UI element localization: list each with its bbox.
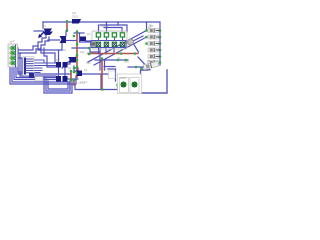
node bus 3: [159, 42, 162, 45]
node bus 2: [159, 36, 162, 39]
small part on wire left: [35, 77, 43, 82]
node bus 4: [159, 49, 162, 52]
connector pin star 2: [11, 51, 16, 55]
svg-text:D3: D3: [56, 72, 60, 76]
node red stub top: [73, 79, 76, 82]
wire Q2 left feed: [48, 39, 60, 41]
svg-text:C1 16: C1 16: [78, 81, 85, 85]
keypad pads top row: [96, 33, 124, 37]
node bottom of top red rail: [66, 29, 69, 32]
transistor Q2: [60, 36, 67, 43]
wire Q4 collector to right: [82, 73, 108, 75]
wire connector bottom pin 5: [18, 67, 70, 74]
transistor Q4: [76, 71, 82, 77]
node relay run: [135, 66, 138, 69]
wire nested top into pads: [100, 25, 127, 32]
wire DS1 out to Q3: [68, 58, 71, 64]
node mid y59 b: [125, 59, 128, 62]
svg-text:R1: R1: [63, 48, 67, 52]
node diode left 1: [145, 29, 148, 32]
node red rail a: [76, 43, 79, 46]
wire diagonal diode3 short: [132, 36, 143, 52]
red segment DS2 right: [71, 71, 74, 85]
transistor Q1 emitter arrow: [40, 32, 45, 37]
svg-text:D1: D1: [87, 32, 91, 36]
svg-text:Q1: Q1: [42, 24, 46, 28]
node bus 5: [159, 55, 162, 58]
wire IC comb row4: [33, 67, 42, 69]
wire connector pin2 stub: [17, 53, 56, 76]
keypad body: [92, 31, 127, 49]
relay diode tilted: [143, 61, 159, 69]
wire blob left vertical: [80, 33, 93, 42]
wire mid stub vertical: [73, 66, 75, 72]
component DS2 dual diode: [56, 76, 68, 82]
wire top main horizontal to right bus: [43, 22, 160, 65]
svg-text:4.7k: 4.7k: [124, 60, 130, 64]
wire bottom right from LED boxes: [139, 85, 141, 87]
wire mid vertical x112: [104, 60, 106, 70]
wire connector pin3 stub: [17, 58, 23, 74]
transistor Q1: [43, 29, 53, 36]
wire mid y63 short: [104, 66, 115, 68]
small part mid box: [103, 56, 130, 79]
connector pin star 4: [11, 61, 16, 65]
red power rail vertical long: [76, 31, 78, 77]
red horizontal rail mid: [88, 53, 138, 55]
keypad pads bottom row: [96, 42, 124, 46]
node red rail top2: [76, 31, 79, 34]
wire connector bottom pin long bottom run: [10, 67, 117, 90]
wire connector pin1 right stub and drop: [17, 48, 23, 72]
svg-text:2N3: 2N3: [72, 15, 78, 19]
wire bottom U loop inner: [48, 81, 68, 89]
wire mid horizontal y59: [95, 59, 128, 61]
node relay diode right: [159, 61, 162, 64]
diode column row 3: [148, 42, 160, 46]
diode column row 1: [148, 25, 160, 33]
wire IC comb row5: [33, 70, 42, 72]
wire big loop right edge: [141, 70, 168, 93]
svg-text:C2 10: C2 10: [103, 67, 110, 71]
wire pad down 2: [113, 47, 115, 52]
wire connector bottom pin 2: [12, 67, 70, 89]
diode column row 6: [148, 61, 159, 65]
wire stair branch a: [38, 46, 62, 50]
keypad pad X marks bottom row: [97, 42, 125, 46]
wire Q1 base drop: [42, 22, 44, 28]
junction green dots: [66, 20, 162, 91]
node mid pair a: [73, 67, 76, 70]
connector pin star 3: [11, 56, 16, 60]
node LED box pin: [116, 84, 119, 87]
node red mid left: [88, 53, 91, 56]
wire mid right vertical: [100, 74, 102, 89]
wire pads down to mid: [105, 47, 107, 54]
component DS1 dual diode: [56, 62, 68, 68]
node mid y59: [117, 59, 120, 62]
wire Q2 out to red rail: [66, 40, 77, 42]
svg-text:D2: D2: [56, 58, 60, 62]
diode column row 4: [148, 48, 160, 52]
transistor Q3: [68, 57, 76, 63]
wire relay diode left run: [128, 66, 143, 68]
wire bottom U loop outer: [44, 77, 72, 93]
connector internal bus: [15, 45, 17, 67]
wire stair branch c: [44, 48, 56, 67]
svg-text:16 ohm: 16 ohm: [100, 24, 109, 28]
red power rail vertical top: [66, 21, 68, 31]
wire left into pad x98: [74, 32, 84, 34]
keypad blue sub-rect bus lines: [91, 40, 126, 42]
wire Q4 down: [75, 76, 77, 84]
wire pads right to circle: [86, 40, 91, 42]
node DS2 cross a: [70, 70, 73, 73]
svg-text:U2: U2: [122, 23, 126, 27]
wire drop to pad x98: [98, 25, 100, 33]
diode column row 2: [148, 35, 160, 39]
LED box 1: [120, 76, 129, 93]
connector left pin marks: [9, 48, 11, 63]
wire connector bottom pin 3: [14, 67, 56, 80]
red rail vertical right: [101, 59, 103, 90]
node mid y48: [88, 47, 91, 50]
wire staircase from Q1 to connector: [17, 34, 46, 50]
wire DS2 out across red: [68, 78, 79, 80]
wire drop to diode pin1: [146, 22, 148, 29]
wire mid step: [74, 68, 78, 71]
wire DS1 to DS2 vertical b: [64, 68, 66, 77]
svg-text:LED1: LED1: [120, 76, 127, 80]
wire connector bottom pin 4: [16, 67, 56, 78]
connector pin star 1: [11, 46, 16, 50]
wire DS1 to DS2 vertical a: [58, 68, 60, 77]
wire Q1 left feed: [34, 30, 43, 32]
node top of red rail: [66, 20, 69, 23]
svg-text:R4: R4: [68, 66, 72, 70]
wire Q3 to red rail: [76, 56, 77, 58]
node red mid right: [120, 52, 123, 55]
svg-text:10k: 10k: [80, 50, 85, 54]
wire staircase parallel second: [17, 37, 49, 53]
node red rail c: [76, 59, 79, 62]
transistor Q5 top: [72, 19, 81, 24]
svg-text:C3: C3: [117, 56, 121, 60]
node red rail e: [76, 72, 79, 75]
svg-text:D6: D6: [147, 59, 151, 63]
transistor Q2 down stub: [61, 43, 63, 50]
wire diagonal diode1 to mid: [88, 31, 147, 63]
diode column row 5: [148, 55, 160, 59]
LED box 2: [130, 78, 139, 93]
wire IC comb row2: [33, 62, 56, 64]
wire Q2 top to red: [65, 31, 67, 36]
wire drop to pad x106: [106, 22, 108, 33]
wire diagonal to relay box: [138, 57, 150, 70]
node bottom red join: [101, 88, 104, 91]
node diode left 2: [145, 36, 148, 39]
wire below keypad vertical: [99, 48, 101, 71]
connector J1 body: [8, 44, 18, 67]
transistor Q6 small mid: [80, 37, 86, 42]
keypad motor circle left: [90, 41, 97, 48]
node mid left pin36: [73, 35, 76, 38]
svg-text:D4: D4: [84, 68, 88, 72]
node DS2 cross b: [70, 79, 73, 82]
wire diagonal diode2 to mid: [94, 37, 147, 65]
node mid pair b: [73, 71, 76, 74]
wire mid y48 branch: [72, 48, 100, 52]
svg-text:R10: R10: [86, 61, 91, 65]
wire drop at x118: [117, 22, 119, 25]
IC U3 ladder body: [23, 57, 34, 79]
node relay diode left: [140, 67, 143, 70]
wire IC comb row3: [33, 65, 56, 67]
LED assembly outer box: [118, 74, 142, 94]
node red rail b: [76, 54, 79, 57]
node diode left 3: [145, 42, 148, 45]
node bus 1: [159, 29, 162, 32]
wire into LED box top: [108, 69, 116, 81]
wire Q3 emitter diagonal: [62, 62, 68, 68]
wire IC comb row6: [33, 72, 40, 74]
wire bottom U loop middle: [46, 79, 70, 91]
wire IC comb row1: [33, 60, 44, 63]
wire stair branch b: [41, 48, 55, 62]
wire bottom step up to LED box: [118, 85, 120, 90]
wire big loop rectangle: [141, 70, 149, 93]
node red rail d: [76, 66, 79, 69]
keypad motor circle right: [128, 39, 134, 45]
